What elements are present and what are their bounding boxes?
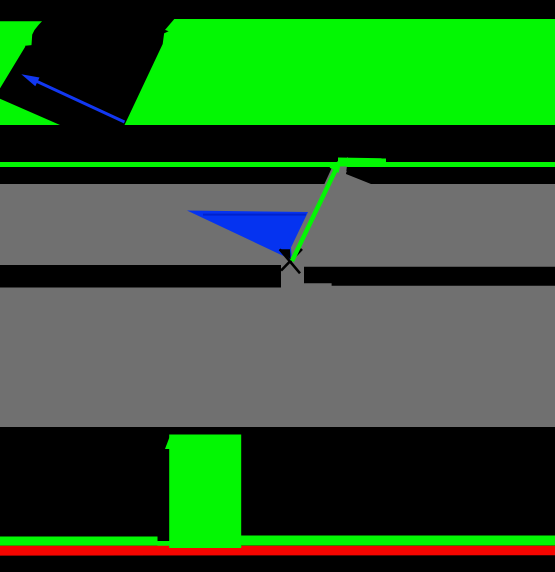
black notch in right green block edge xyxy=(164,29,169,33)
pulse bar left sliver xyxy=(165,435,171,450)
green terrain band: left lower triangle xyxy=(0,99,60,125)
green terrain band: right block xyxy=(125,19,555,125)
gray arrow (behind green arrow) xyxy=(296,157,371,264)
X marker arm B (upper-right to lower-left) xyxy=(281,249,302,271)
right black lane stripe xyxy=(304,267,555,286)
thin green trace line (horizontal) xyxy=(0,162,555,167)
black notch wedge at X xyxy=(279,249,291,259)
green arrow from X up-right xyxy=(292,158,342,261)
dark blue stripe inside triangle xyxy=(203,214,306,216)
red trace line xyxy=(0,546,555,556)
bottom green baseline (left of pulse) xyxy=(0,537,158,546)
X marker arm A (upper-left to lower-right) xyxy=(280,249,300,273)
gray road band xyxy=(0,184,555,427)
green trace plateau segment xyxy=(338,158,386,167)
green terrain band: left upper polygon xyxy=(0,21,42,88)
blue arrow (top, pointing upper-left) xyxy=(21,74,124,122)
bottom green baseline (right of pulse) xyxy=(241,536,555,546)
blue triangle (field-of-view wedge) xyxy=(187,211,308,261)
left black lane stripe xyxy=(0,265,281,288)
bottom green baseline (notch segment) xyxy=(158,541,170,546)
green pulse bar xyxy=(169,435,241,549)
